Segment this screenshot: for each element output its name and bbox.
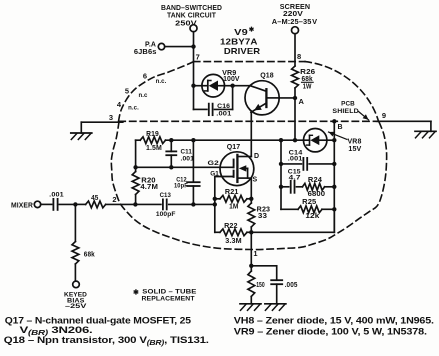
svg-text:33: 33 (258, 213, 267, 220)
svg-text:–25V: –25V (65, 303, 87, 310)
svg-text:4: 4 (117, 100, 122, 109)
junction: G1/R21 node (213, 197, 217, 201)
capacitor C15 (281, 168, 301, 193)
pin 2 label (112, 195, 116, 204)
svg-text:✱: ✱ (133, 288, 139, 296)
capacitor .005 (251, 266, 297, 304)
svg-text:P.A: P.A (145, 42, 156, 49)
svg-text:n.c.: n.c. (156, 79, 167, 85)
node B (332, 119, 343, 131)
svg-text:4.7: 4.7 (289, 175, 301, 182)
wire: C14/C15 left vertical (280, 140, 282, 209)
resistor R25 (281, 199, 334, 220)
label: V9 12BY7A DRIVER tube designation (220, 26, 260, 56)
svg-text:.005: .005 (285, 282, 298, 289)
wire: mixer line to G1 vertical (193, 203, 214, 205)
svg-text:10pF: 10pF (174, 182, 188, 189)
zener diode VR8 (304, 129, 362, 154)
svg-text:.001: .001 (288, 156, 303, 163)
transistor Q17 (dual-gate MOSFET) (208, 144, 260, 186)
svg-text:R19: R19 (146, 131, 159, 138)
svg-text:n.c.: n.c. (128, 106, 139, 112)
svg-text:9: 9 (382, 111, 386, 120)
wire: R19 left to G2 line (135, 140, 137, 167)
pin 8 label (297, 52, 301, 61)
svg-text:1W: 1W (303, 84, 312, 91)
svg-text:12BY7A: 12BY7A (220, 36, 258, 46)
svg-text:.001: .001 (49, 191, 64, 198)
wire: dashed shield outline top (pin7 to pin8 side) (194, 61, 306, 63)
svg-text:SOLID – TUBE: SOLID – TUBE (142, 289, 197, 296)
resistor R19 (140, 131, 165, 152)
svg-text:VR8: VR8 (348, 139, 362, 146)
svg-text:VH8 – Zener diode, 15 V, 400 m: VH8 – Zener diode, 15 V, 400 mW, 1N965. (234, 314, 434, 325)
junction: bus/R25 node (332, 207, 336, 211)
svg-text:R21: R21 (225, 189, 239, 196)
terminal: keyed bias -25V (64, 281, 87, 310)
svg-text:B: B (338, 124, 343, 131)
capacitor C14 (281, 150, 334, 170)
svg-text:R26: R26 (300, 69, 315, 76)
svg-text:5: 5 (125, 87, 129, 96)
wire: VR9 left lead (194, 85, 202, 87)
capacitor .001 (mixer input) (41, 191, 76, 210)
svg-text:Q18 – Npn transistor, 300 V(BR: Q18 – Npn transistor, 300 V(BR), TIS131. (4, 334, 209, 347)
svg-text:Q17 – N-channel dual-gate MOSF: Q17 – N-channel dual-gate MOSFET, 25 (5, 314, 191, 325)
junction: rail/C14-C15 branch (279, 138, 283, 142)
junction: mixer/.001/68k node (73, 202, 77, 206)
svg-text:150: 150 (256, 282, 265, 289)
pin 7 label (196, 53, 200, 62)
resistor R24 (297, 177, 335, 198)
zener diode VR9 (202, 70, 240, 97)
ground (pin 3) (71, 133, 92, 140)
terminal MIXER (11, 201, 41, 209)
wire: Q18 emitter to Q17 drain (250, 112, 252, 157)
ground (150 resistor) (240, 304, 261, 311)
svg-text:G2: G2 (208, 160, 220, 167)
wire: tank supply vertical (pin 7) (193, 32, 195, 110)
svg-text:.001: .001 (181, 155, 195, 162)
wire: R26 to node A (294, 88, 296, 140)
junction: C12 bottom node (191, 202, 195, 206)
svg-text:4.7M: 4.7M (140, 184, 158, 191)
junction: tank / P.A. node (191, 44, 195, 48)
wire: right vertical bus (333, 121, 335, 232)
junction: R21/R23/S node (249, 197, 253, 201)
pin 6 label (143, 72, 167, 86)
capacitor C11 (166, 140, 194, 167)
svg-text:D: D (254, 153, 259, 160)
junction: C15 left node (279, 185, 283, 189)
svg-text:Q17: Q17 (227, 144, 241, 151)
junction: R22/R23/pin1 node (249, 230, 253, 234)
svg-text:8: 8 (297, 52, 301, 61)
resistor R20 (132, 167, 158, 204)
wire: pin 1 vertical (250, 232, 252, 265)
capacitor C13 (135, 192, 193, 218)
terminal: screen 220V A-M:25-35V (272, 2, 318, 34)
junction: G1/mixer node (213, 202, 217, 206)
svg-text:12k: 12k (305, 213, 319, 220)
junction: rail/C12 (191, 138, 195, 142)
terminal P.A 6JB6s (134, 42, 194, 57)
junction: bus/VR8 node (332, 138, 336, 142)
svg-text:VR9 – Zener diode, 100 V, 5 W,: VR9 – Zener diode, 100 V, 5 W, 1N5378. (234, 326, 427, 337)
wire: VR9 right lead (225, 85, 233, 87)
wire: bottom return line (251, 209, 334, 232)
caption: Q17 description line 1 (5, 314, 191, 325)
wire: pin 3 to chassis ground (81, 122, 123, 133)
svg-text:C13: C13 (160, 192, 171, 199)
resistor 68k (72, 204, 95, 281)
label: PCB SHIELD (332, 101, 368, 120)
svg-text:R22: R22 (224, 223, 238, 230)
svg-text:15V: 15V (348, 146, 361, 153)
svg-text:✱: ✱ (249, 26, 255, 34)
resistor R22 (215, 223, 252, 245)
caption: Q18 description (4, 334, 209, 347)
svg-text:1: 1 (253, 249, 257, 258)
svg-text:.001: .001 (216, 111, 231, 118)
svg-text:n.c: n.c (139, 93, 149, 99)
svg-text:45: 45 (91, 195, 98, 202)
svg-text:A–M:25–35 V: A–M:25–35 V (272, 17, 318, 26)
svg-text:R25: R25 (302, 199, 316, 206)
wire: Q18 collector to node A (279, 97, 295, 99)
svg-text:100pF: 100pF (156, 211, 176, 218)
svg-text:A: A (299, 97, 305, 106)
wire: screen vertical (pin 8) (294, 34, 296, 66)
pin 3 label (109, 113, 113, 122)
wire: bias rail (R19 .. VR8) (136, 139, 304, 141)
junction: C11/G2 line (169, 165, 173, 169)
svg-text:MIXER: MIXER (11, 203, 33, 210)
capacitor C16 (194, 86, 233, 118)
ground (pin 9, PCB shield) (415, 131, 436, 138)
junction: VR9 left node (191, 84, 195, 88)
pin 1 label (253, 249, 257, 258)
svg-text:68k: 68k (84, 252, 95, 259)
svg-text:7: 7 (196, 53, 200, 62)
wire: Q18 base from VR9/C16 node (233, 85, 251, 87)
svg-text:R24: R24 (308, 177, 322, 184)
svg-text:S: S (253, 177, 258, 184)
footnote: solid-tube replacement (133, 288, 197, 302)
junction: 150/.005 node (249, 264, 253, 268)
wire: G2 line (136, 166, 234, 168)
svg-text:2: 2 (112, 195, 116, 204)
transistor Q18 (245, 73, 279, 115)
caption: VH8 description (234, 314, 434, 325)
svg-text:250V: 250V (175, 18, 197, 27)
junction: rail/node-A branch (293, 138, 297, 142)
wire: dashed shield outline upper-right arc (to pin 9) (305, 62, 379, 122)
svg-text:SHIELD: SHIELD (332, 108, 358, 115)
junction: rail/C11 (169, 138, 173, 142)
junction: bus/R24 node (332, 185, 336, 189)
caption: VR9 description (234, 326, 427, 337)
ground (.005 capacitor) (265, 304, 286, 311)
svg-text:3.3M: 3.3M (225, 238, 241, 245)
pin 4 label (117, 100, 139, 112)
resistor 45 (75, 195, 135, 208)
wire: G1 vertical (215, 177, 234, 233)
caption: Q17 description line 2 (20, 324, 93, 337)
junction: C14 left node (279, 162, 283, 166)
terminal: band-switched tank circuit 250V (161, 3, 222, 32)
junction: bus/C14 node (332, 162, 336, 166)
wire: VR8 right lead to bus (327, 139, 334, 141)
capacitor C12 (174, 140, 200, 204)
svg-text:C16: C16 (217, 103, 230, 110)
svg-text:1M: 1M (229, 204, 238, 211)
junction: R20 bottom node (133, 202, 137, 206)
svg-text:1.5M: 1.5M (146, 145, 162, 152)
wire: pin 9 to chassis ground (377, 121, 431, 131)
pin 9 label (382, 111, 386, 120)
svg-text:100V: 100V (223, 76, 240, 83)
junction: VR9 right node (230, 84, 234, 88)
wire: Q17 source to R21/R23 node (250, 178, 252, 199)
node A (293, 96, 305, 106)
wire: dashed shield outline upper-left arc (pins 4-7) (119, 62, 194, 122)
resistor 150 (248, 266, 265, 304)
svg-text:6: 6 (143, 72, 147, 81)
resistor R21 (215, 189, 252, 211)
wire: dashed shield outline waist (pin 3 to pin 9) (119, 120, 379, 122)
svg-text:DRIVER: DRIVER (224, 46, 260, 56)
resistor R23 (248, 199, 270, 233)
svg-text:PCB: PCB (341, 101, 355, 108)
pin 5 label (125, 87, 148, 100)
svg-text:Q18: Q18 (260, 73, 274, 80)
svg-text:6800: 6800 (308, 191, 326, 198)
svg-text:3: 3 (109, 113, 113, 122)
svg-text:REPLACEMENT: REPLACEMENT (142, 296, 195, 303)
svg-text:6JB6s: 6JB6s (134, 49, 157, 56)
resistor R26 (292, 66, 316, 91)
wire: dashed shield outline lower lobe (111, 122, 386, 250)
junction: R19/R20/G2 node (133, 165, 137, 169)
